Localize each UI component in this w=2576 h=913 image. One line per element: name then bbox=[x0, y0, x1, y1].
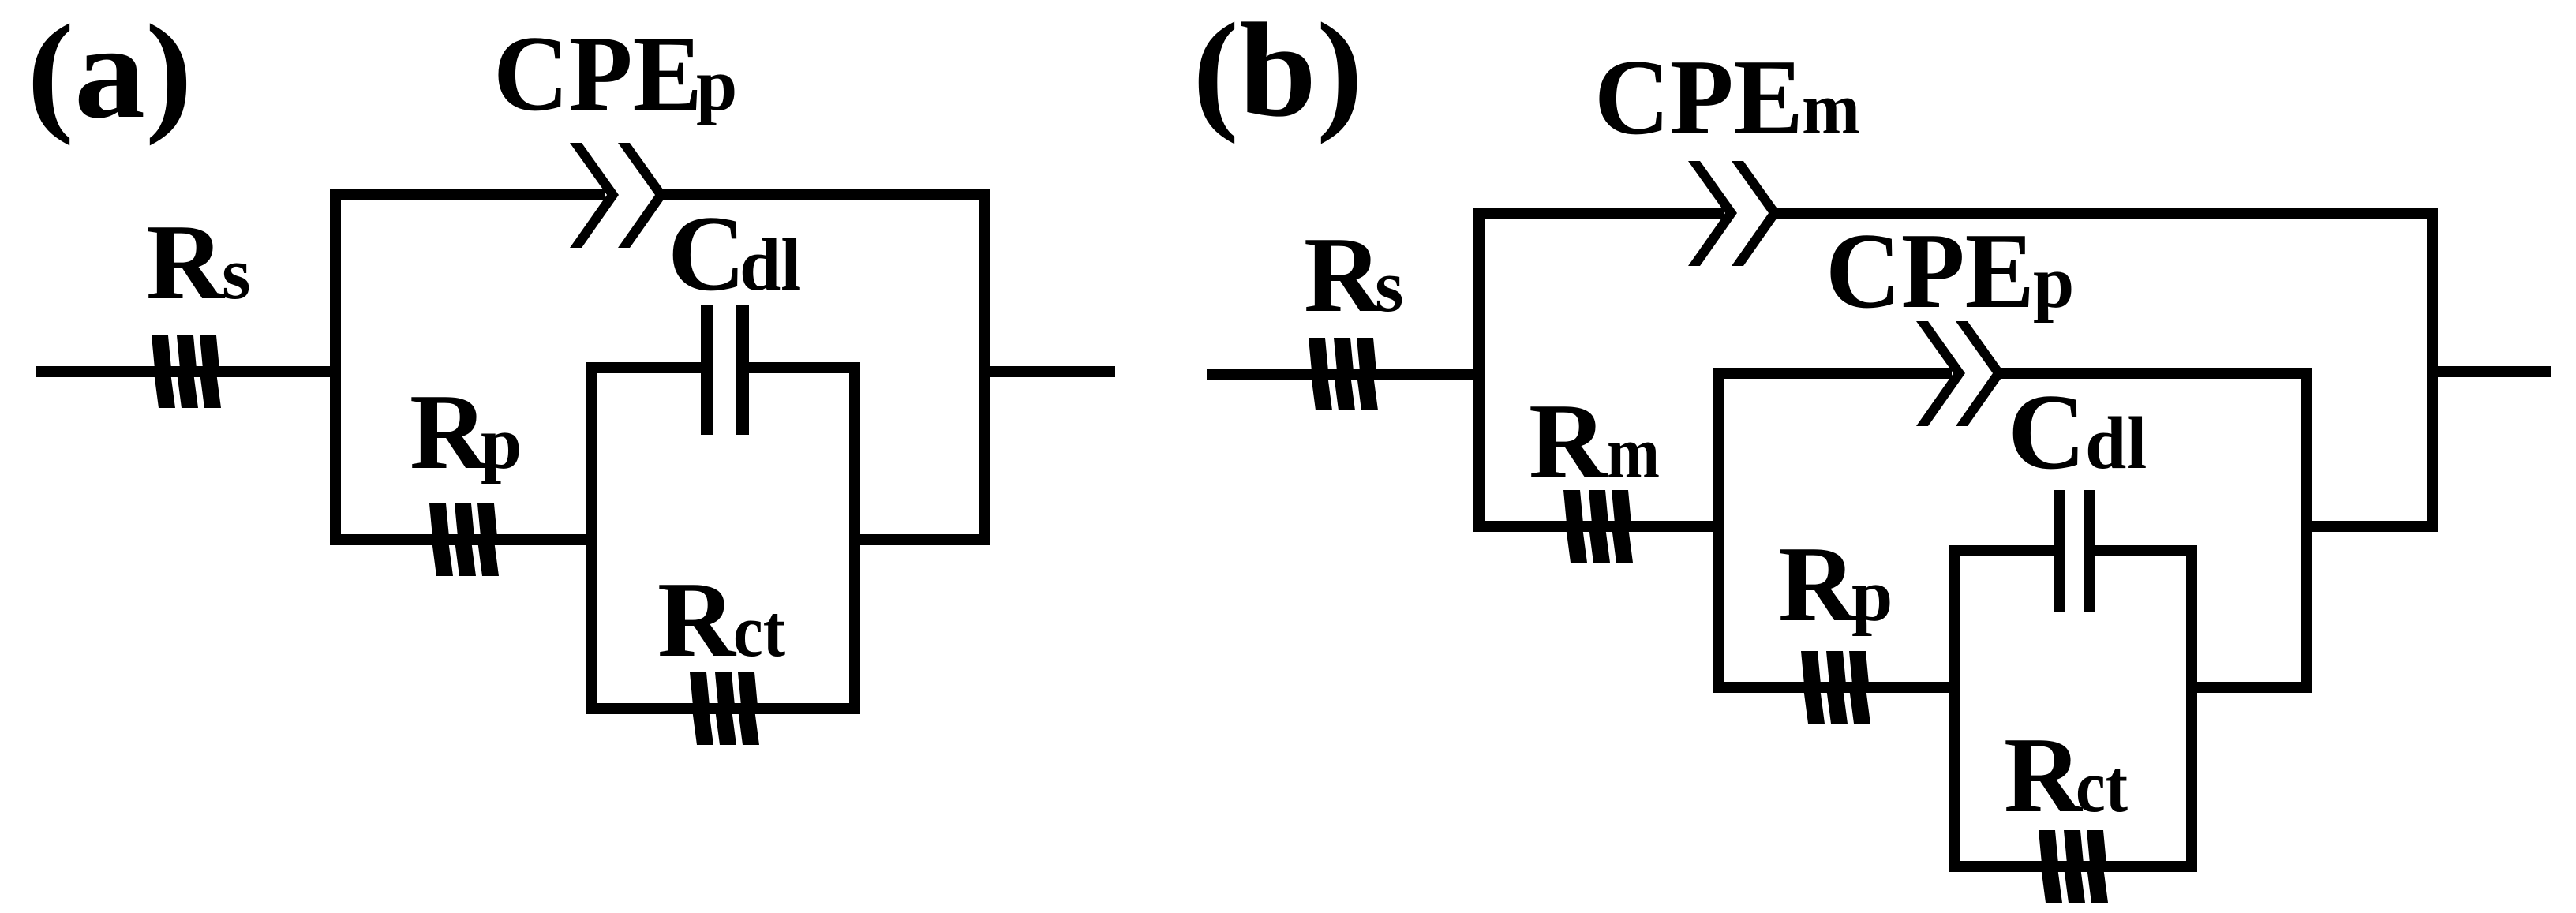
wire Rp branch (b) bbox=[1718, 682, 1955, 693]
svg-text:ct: ct bbox=[733, 590, 785, 672]
wire Rp branch (a) bbox=[335, 534, 592, 545]
svg-text:R: R bbox=[1304, 215, 1383, 335]
svg-text:m: m bbox=[1607, 412, 1660, 494]
svg-text:(a): (a) bbox=[27, 0, 193, 146]
wire junction inner to middle right (b) bbox=[2192, 682, 2306, 693]
wire junction middle to outer right (b) bbox=[2306, 521, 2432, 532]
svg-text:R: R bbox=[2004, 715, 2084, 835]
wire outer box right vertical (b) bbox=[2427, 208, 2438, 532]
wire outer box left vertical (b) bbox=[1473, 208, 1485, 532]
wire outer box left vertical (a) bbox=[330, 189, 341, 545]
wire junction inner to outer right (a) bbox=[855, 534, 984, 545]
svg-text:R: R bbox=[657, 559, 737, 679]
label Rct (a) bbox=[657, 559, 785, 679]
capacitor Cdl (a) bbox=[701, 305, 749, 435]
svg-text:s: s bbox=[1375, 245, 1404, 327]
svg-text:R: R bbox=[410, 372, 489, 492]
wire inner box bottom (a) bbox=[586, 703, 860, 714]
label Rs (a) bbox=[146, 202, 251, 322]
wire inner box right vertical (b) bbox=[2186, 545, 2197, 872]
svg-text:p: p bbox=[696, 44, 737, 126]
resistor Rp (a) bbox=[429, 503, 499, 576]
svg-text:(b): (b) bbox=[1193, 0, 1363, 144]
svg-text:CPE: CPE bbox=[493, 13, 702, 133]
wire outer box top (b) bbox=[1473, 208, 2438, 219]
label Rp (b) bbox=[1778, 524, 1893, 644]
wire middle box right vertical (b) bbox=[2301, 368, 2312, 693]
wire inner box bottom (b) bbox=[1949, 861, 2197, 872]
resistor Rs (b) bbox=[1309, 338, 1378, 410]
wire inner box top (b) bbox=[1949, 545, 2197, 556]
svg-text:R: R bbox=[1529, 381, 1608, 501]
svg-text:p: p bbox=[1851, 555, 1893, 637]
wire output (b) bbox=[2432, 366, 2551, 377]
wire inner box left vertical (b) bbox=[1949, 545, 1960, 872]
svg-text:p: p bbox=[481, 402, 522, 485]
label Rp (a) bbox=[410, 372, 522, 492]
svg-text:m: m bbox=[1802, 68, 1860, 150]
svg-text:ct: ct bbox=[2076, 746, 2128, 828]
label Rm (b) bbox=[1529, 381, 1660, 501]
resistor Rct (a) bbox=[690, 672, 759, 745]
svg-text:p: p bbox=[2033, 241, 2074, 324]
svg-text:CPE: CPE bbox=[1825, 211, 2035, 331]
wire Rm branch (b) bbox=[1479, 521, 1718, 532]
wire inner box right vertical (a) bbox=[849, 362, 860, 714]
wire middle box top (b) bbox=[1713, 368, 2312, 379]
label Rct (b) bbox=[2004, 715, 2128, 835]
label Cdl (b) bbox=[2008, 372, 2147, 492]
label CPEp (b) bbox=[1825, 211, 2074, 331]
resistor Rm (b) bbox=[1563, 490, 1633, 563]
wire output (a) bbox=[984, 366, 1115, 377]
label Rs (b) bbox=[1304, 215, 1404, 335]
CPE element CPEm (b) bbox=[1688, 161, 1780, 266]
svg-text:dl: dl bbox=[739, 224, 801, 306]
label CPEp (a) bbox=[493, 13, 737, 133]
wire middle box left vertical (b) bbox=[1713, 368, 1724, 693]
capacitor Cdl (b) bbox=[2054, 490, 2095, 612]
label CPEm (b) bbox=[1594, 37, 1860, 157]
wire outer box right vertical (a) bbox=[979, 189, 990, 545]
svg-text:C: C bbox=[668, 193, 746, 313]
svg-text:s: s bbox=[222, 233, 251, 315]
svg-text:R: R bbox=[1778, 524, 1858, 644]
CPE element CPEp (b) bbox=[1916, 321, 2005, 426]
wire main input (b) bbox=[1207, 369, 1479, 380]
label Cdl (a) bbox=[668, 193, 801, 313]
CPE element CPEp (a) bbox=[570, 143, 667, 248]
wire outer box top (a) bbox=[330, 189, 990, 200]
svg-text:C: C bbox=[2008, 372, 2086, 492]
wire inner box left vertical (a) bbox=[586, 362, 597, 714]
resistor Rs (a) bbox=[152, 335, 221, 408]
svg-text:CPE: CPE bbox=[1594, 37, 1803, 157]
wire main input (a) bbox=[36, 366, 335, 377]
resistor Rp (b) bbox=[1801, 651, 1870, 724]
svg-text:dl: dl bbox=[2085, 402, 2147, 485]
wire inner box top (a) bbox=[586, 362, 860, 373]
svg-text:R: R bbox=[146, 202, 226, 322]
resistor Rct (b) bbox=[2039, 830, 2108, 903]
